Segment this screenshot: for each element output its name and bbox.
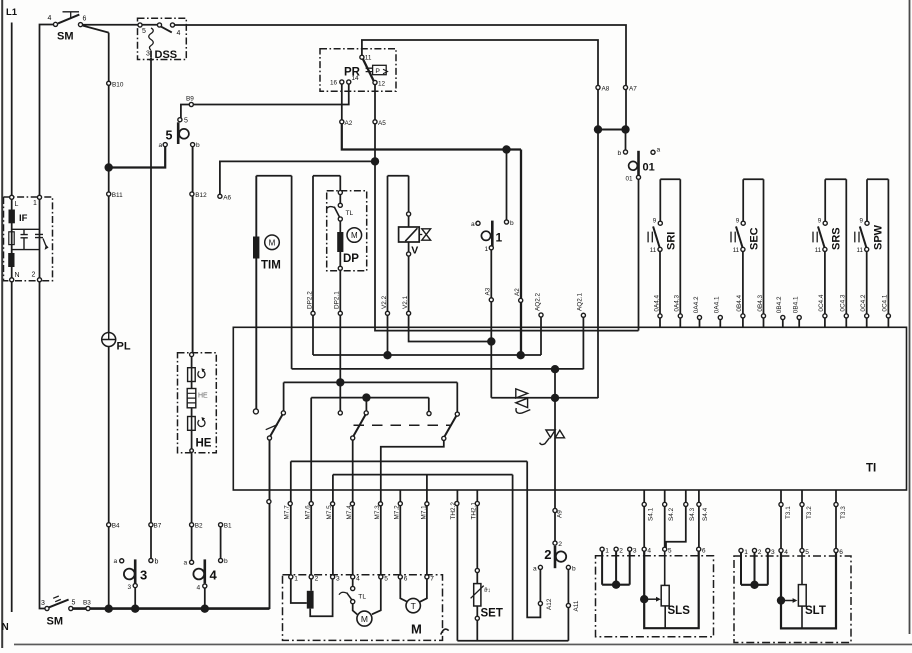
svg-text:M7.1: M7.1 [420, 505, 427, 520]
svg-text:T3.1: T3.1 [785, 506, 792, 519]
svg-text:0A4.1: 0A4.1 [714, 296, 721, 313]
svg-text:DP2.2: DP2.2 [306, 291, 313, 309]
svg-text:01: 01 [626, 176, 634, 183]
svg-text:a: a [159, 142, 163, 149]
svg-text:9: 9 [860, 217, 864, 224]
svg-text:12: 12 [378, 81, 386, 88]
svg-text:S4.1: S4.1 [648, 507, 655, 521]
svg-text:A9: A9 [557, 510, 564, 518]
svg-text:b: b [572, 566, 576, 573]
svg-text:SRI: SRI [666, 232, 678, 250]
svg-text:b: b [618, 150, 622, 157]
svg-text:TL: TL [358, 593, 366, 600]
svg-text:DSS: DSS [155, 49, 178, 61]
svg-text:S4.4: S4.4 [702, 507, 709, 521]
svg-text:M7.6: M7.6 [305, 505, 312, 520]
svg-text:6: 6 [404, 576, 408, 583]
svg-text:1: 1 [496, 231, 503, 245]
svg-text:3: 3 [140, 568, 147, 583]
svg-text:4: 4 [48, 15, 52, 22]
svg-text:B2: B2 [195, 523, 203, 530]
svg-text:M7.4: M7.4 [346, 505, 353, 520]
svg-text:M: M [351, 231, 358, 240]
svg-text:AQ2.1: AQ2.1 [577, 292, 584, 311]
svg-text:ϑ↕: ϑ↕ [484, 587, 491, 594]
svg-text:DP2.1: DP2.1 [334, 291, 341, 309]
svg-text:0C4.1: 0C4.1 [882, 294, 889, 311]
svg-text:TH2.1: TH2.1 [471, 502, 478, 520]
svg-text:0C4.2: 0C4.2 [860, 294, 867, 311]
svg-text:DP: DP [343, 253, 359, 265]
svg-text:6: 6 [702, 548, 706, 555]
svg-text:SM: SM [47, 616, 64, 628]
svg-text:SLT: SLT [805, 605, 826, 617]
svg-text:a: a [114, 558, 118, 565]
svg-text:TI: TI [866, 463, 876, 475]
svg-text:SLS: SLS [668, 605, 691, 617]
svg-text:M7.2: M7.2 [394, 505, 401, 520]
svg-text:M: M [269, 238, 276, 247]
svg-text:IF: IF [19, 213, 28, 224]
svg-text:0A4.3: 0A4.3 [674, 294, 681, 311]
svg-text:M7.7: M7.7 [284, 505, 291, 520]
svg-text:2: 2 [558, 541, 562, 548]
svg-text:TIM: TIM [261, 260, 281, 272]
svg-text:4: 4 [784, 549, 788, 556]
svg-text:A8: A8 [602, 86, 610, 93]
svg-text:0B4.1: 0B4.1 [793, 296, 800, 313]
svg-text:0C4.4: 0C4.4 [818, 294, 825, 311]
svg-text:A12: A12 [546, 598, 553, 610]
svg-text:4: 4 [177, 30, 181, 37]
svg-text:A11: A11 [573, 600, 580, 611]
svg-text:B3: B3 [83, 600, 91, 607]
svg-text:TH2.2: TH2.2 [450, 502, 457, 520]
svg-text:5: 5 [142, 28, 146, 35]
svg-text:16: 16 [330, 80, 338, 87]
svg-text:1: 1 [485, 246, 489, 253]
svg-text:1: 1 [605, 548, 609, 555]
svg-text:9: 9 [736, 217, 740, 224]
svg-text:SPW: SPW [872, 224, 884, 250]
svg-text:A7: A7 [629, 86, 637, 93]
svg-text:V2.1: V2.1 [402, 295, 409, 309]
svg-text:T: T [411, 601, 416, 611]
svg-text:SET: SET [481, 608, 503, 620]
svg-text:01: 01 [643, 162, 655, 174]
svg-text:5: 5 [668, 548, 672, 555]
svg-text:1: 1 [744, 549, 748, 556]
svg-text:2: 2 [315, 576, 319, 583]
svg-text:SM: SM [57, 31, 74, 43]
svg-text:0A4.2: 0A4.2 [693, 296, 700, 313]
svg-text:P: P [375, 68, 380, 75]
svg-text:0B4.3: 0B4.3 [757, 294, 764, 311]
svg-text:0A4.4: 0A4.4 [653, 294, 660, 311]
svg-text:a: a [657, 147, 661, 154]
svg-text:b: b [224, 558, 228, 565]
svg-text:9: 9 [653, 217, 657, 224]
svg-text:1: 1 [33, 200, 37, 207]
svg-text:0B4.4: 0B4.4 [736, 294, 743, 311]
svg-text:4: 4 [197, 585, 201, 592]
svg-text:AQ2.2: AQ2.2 [534, 292, 541, 311]
svg-text:11: 11 [733, 247, 740, 254]
svg-text:N: N [15, 272, 20, 279]
svg-text:3: 3 [633, 548, 637, 555]
svg-text:a: a [184, 560, 188, 567]
svg-text:T3.3: T3.3 [840, 506, 847, 519]
svg-text:S4.3: S4.3 [689, 507, 696, 521]
svg-text:B7: B7 [154, 523, 162, 530]
svg-text:b: b [196, 142, 200, 149]
svg-text:5: 5 [72, 600, 76, 607]
svg-text:2: 2 [32, 272, 36, 279]
svg-text:A5: A5 [378, 120, 386, 127]
svg-text:11: 11 [650, 247, 657, 254]
svg-text:b: b [510, 220, 514, 227]
svg-text:L1: L1 [6, 7, 18, 18]
svg-text:M: M [411, 622, 422, 637]
svg-text:V2.2: V2.2 [381, 295, 388, 309]
svg-text:B4: B4 [112, 523, 120, 530]
svg-text:2: 2 [619, 548, 623, 555]
svg-text:M7.3: M7.3 [374, 505, 381, 520]
svg-text:0B4.2: 0B4.2 [776, 296, 783, 313]
svg-text:T3.2: T3.2 [806, 506, 813, 519]
svg-text:4: 4 [210, 568, 218, 583]
svg-text:B9: B9 [186, 96, 194, 103]
svg-text:2: 2 [544, 547, 551, 562]
svg-text:HE: HE [196, 438, 212, 450]
svg-text:3: 3 [128, 584, 132, 591]
svg-text:b: b [155, 559, 159, 566]
svg-text:B11: B11 [112, 192, 123, 199]
svg-text:A2: A2 [514, 288, 521, 296]
svg-text:6: 6 [83, 16, 87, 23]
svg-text:B1: B1 [224, 523, 232, 530]
svg-text:SRS: SRS [831, 227, 843, 250]
svg-text:0C4.3: 0C4.3 [840, 294, 847, 311]
svg-text:4: 4 [356, 576, 360, 583]
svg-text:L: L [15, 201, 19, 208]
svg-text:9: 9 [818, 217, 822, 224]
svg-text:A2: A2 [345, 120, 353, 127]
svg-text:5: 5 [384, 576, 388, 583]
svg-text:11: 11 [815, 247, 822, 254]
svg-text:3: 3 [41, 600, 45, 607]
svg-text:M: M [361, 614, 368, 624]
svg-text:M7.5: M7.5 [326, 505, 333, 520]
svg-text:11: 11 [857, 247, 864, 254]
svg-text:2: 2 [758, 549, 762, 556]
svg-text:1: 1 [294, 576, 298, 583]
svg-text:B12: B12 [195, 192, 207, 199]
svg-text:a: a [471, 221, 475, 228]
svg-text:4: 4 [647, 548, 651, 555]
svg-text:7: 7 [430, 576, 434, 583]
svg-text:V: V [411, 245, 418, 257]
svg-text:A6: A6 [223, 194, 231, 201]
svg-text:5: 5 [166, 129, 173, 143]
svg-text:SEC: SEC [749, 227, 761, 250]
svg-text:a: a [533, 566, 537, 573]
svg-text:3: 3 [146, 51, 150, 58]
svg-text:11: 11 [365, 55, 372, 62]
svg-text:3: 3 [771, 549, 775, 556]
svg-text:TL: TL [346, 210, 354, 217]
svg-text:A3: A3 [485, 287, 492, 295]
svg-text:S4.2: S4.2 [668, 507, 675, 521]
svg-text:HE: HE [198, 393, 208, 400]
svg-text:B10: B10 [112, 82, 124, 89]
svg-text:5: 5 [805, 549, 809, 556]
svg-text:5: 5 [184, 118, 188, 125]
svg-text:14: 14 [352, 75, 360, 82]
svg-text:PL: PL [117, 341, 131, 353]
svg-text:3: 3 [336, 576, 340, 583]
svg-text:N: N [2, 622, 9, 633]
svg-text:6: 6 [839, 549, 843, 556]
